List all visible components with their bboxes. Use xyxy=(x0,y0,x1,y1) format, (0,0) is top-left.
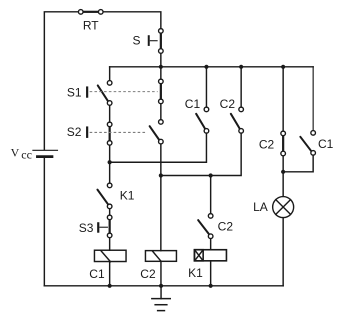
svg-text:LA: LA xyxy=(253,200,268,214)
svg-text:S3: S3 xyxy=(79,221,94,235)
svg-text:C1: C1 xyxy=(318,137,334,151)
svg-text:C2: C2 xyxy=(218,220,234,234)
svg-text:S2: S2 xyxy=(67,125,82,139)
svg-text:C1: C1 xyxy=(185,97,201,111)
svg-text:V: V xyxy=(11,145,20,159)
svg-text:C1: C1 xyxy=(89,267,105,281)
svg-text:C2: C2 xyxy=(259,138,275,152)
svg-text:RT: RT xyxy=(83,19,99,33)
svg-text:cc: cc xyxy=(21,147,32,161)
svg-text:K1: K1 xyxy=(120,189,135,203)
svg-text:C2: C2 xyxy=(140,267,156,281)
svg-text:C2: C2 xyxy=(220,97,236,111)
svg-text:S1: S1 xyxy=(67,86,82,100)
svg-text:K1: K1 xyxy=(188,266,203,280)
svg-text:S: S xyxy=(133,33,141,47)
